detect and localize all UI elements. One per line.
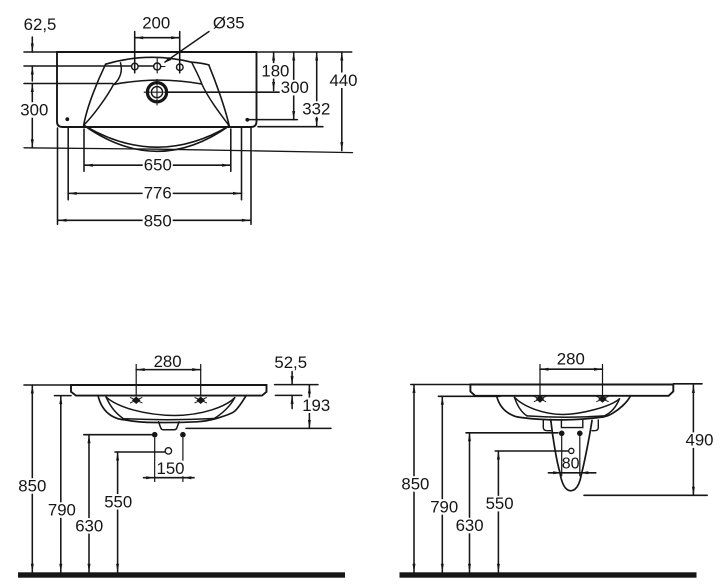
basin front lip outer arc (plan) bbox=[84, 125, 230, 151]
leader drain pipe (front view) bbox=[115, 451, 165, 453]
faucet symbol left (front view) bbox=[133, 397, 140, 403]
bowl outer contour (front view) bbox=[98, 396, 246, 423]
extension line 650 right (plan bottom) bbox=[230, 129, 232, 171]
bowl left wing line (front view) bbox=[106, 397, 123, 419]
extension slab top right (side view) bbox=[673, 383, 702, 385]
extension line top edge right (plan) bbox=[258, 51, 352, 53]
basin right inner wall (plan) bbox=[202, 84, 229, 126]
fixing dot left (front view) bbox=[152, 432, 158, 438]
dimension 850 (front view) bbox=[31, 385, 33, 572]
svg-text:62,5: 62,5 bbox=[24, 15, 57, 34]
fixing dot left (side view) bbox=[559, 431, 565, 437]
dimension 200 (plan top) bbox=[134, 32, 136, 73]
bowl interior bottom line (front view) bbox=[124, 419, 215, 420]
dimension 300 (plan left) bbox=[31, 84, 33, 148]
dimension 193 (front view) bbox=[308, 385, 310, 428]
svg-text:776: 776 bbox=[144, 184, 172, 203]
basin inner back arc (plan) bbox=[114, 80, 202, 84]
bowl outer contour (side view) bbox=[497, 396, 631, 420]
semi-pedestal outline (side view) bbox=[551, 420, 592, 491]
extension line top edge left (plan) bbox=[24, 51, 57, 53]
dimension 440 (plan right) bbox=[341, 52, 343, 151]
svg-text:490: 490 bbox=[686, 431, 714, 450]
svg-text:332: 332 bbox=[302, 100, 330, 119]
pedestal right tab (side view) bbox=[592, 420, 598, 431]
countertop slab (front view) bbox=[71, 385, 267, 396]
extension slab top left (front view) bbox=[24, 384, 71, 386]
drain hole (plan) bbox=[147, 83, 166, 102]
svg-text:440: 440 bbox=[330, 71, 358, 90]
fixing dot right (side view) bbox=[577, 431, 583, 437]
extension line counter bottom right (plan) bbox=[258, 126, 323, 128]
bowl interior arc (front view) bbox=[106, 397, 235, 415]
svg-text:630: 630 bbox=[75, 516, 103, 535]
leader drain pipe (side view) bbox=[495, 450, 568, 452]
drain pipe circle (side view) bbox=[569, 448, 574, 453]
drain boss (side view) bbox=[561, 419, 582, 427]
extension bowl bottom right (front view) bbox=[186, 427, 331, 429]
svg-text:80: 80 bbox=[562, 455, 580, 472]
basin front lip inner arc (plan) bbox=[84, 125, 230, 147]
extension line faucet axis left (plan) bbox=[24, 65, 132, 67]
svg-text:790: 790 bbox=[430, 498, 458, 517]
fixing dot leader (plan right) bbox=[249, 119, 297, 121]
basin right inner wall upper (plan) bbox=[192, 63, 202, 84]
drain pipe circle (front view) bbox=[165, 448, 171, 454]
dimension 280 (front view) bbox=[135, 365, 137, 397]
svg-text:630: 630 bbox=[456, 516, 484, 535]
dimension 180 (plan right) bbox=[273, 52, 275, 91]
extension line faucet axis mid segment (plan) bbox=[138, 65, 154, 67]
dimension 490 (side view) bbox=[692, 385, 694, 496]
svg-text:850: 850 bbox=[401, 475, 429, 494]
bowl interior arc (side view) bbox=[515, 397, 620, 414]
basin back outer arc (plan) bbox=[106, 57, 192, 64]
bowl right wing line (front view) bbox=[214, 398, 235, 419]
svg-text:850: 850 bbox=[18, 477, 46, 496]
extension slab top right (front view) bbox=[275, 384, 318, 386]
faucet hole middle (plan) bbox=[154, 63, 161, 70]
svg-text:280: 280 bbox=[557, 349, 585, 368]
extension line 776 right (plan bottom) bbox=[241, 128, 243, 200]
svg-text:193: 193 bbox=[302, 396, 330, 415]
svg-text:300: 300 bbox=[20, 101, 48, 120]
faucet symbol right (side view) bbox=[599, 396, 606, 402]
faucet symbol left (side view) bbox=[536, 396, 543, 402]
dimension 550 (front view) bbox=[117, 452, 119, 572]
basin right outer wall (plan) bbox=[209, 65, 229, 126]
countertop outline (plan view) bbox=[57, 52, 257, 127]
dimension 650 (plan bottom) bbox=[84, 164, 230, 166]
countertop slab (side view) bbox=[470, 385, 673, 396]
drain center leader (plan right) bbox=[166, 91, 280, 93]
extension slab bottom right (front view) bbox=[275, 394, 301, 396]
floor line (side view) bbox=[400, 572, 697, 577]
basin left outer wall (plan) bbox=[84, 64, 106, 125]
dimension 280 (side view) bbox=[539, 365, 541, 397]
svg-text:280: 280 bbox=[154, 352, 182, 371]
extension slab bottom left (front view) bbox=[55, 395, 72, 397]
faucet hole right (plan) bbox=[177, 64, 184, 71]
extension line 776 left (plan bottom) bbox=[67, 128, 69, 200]
leader fixing dots (front view) bbox=[84, 434, 152, 436]
dimension 300 (plan right) bbox=[293, 52, 295, 120]
extension line 850 left (plan bottom) bbox=[57, 128, 59, 224]
extension slab top left (side view) bbox=[411, 384, 471, 386]
svg-text:790: 790 bbox=[48, 501, 76, 520]
dimension 630 (front view) bbox=[88, 435, 90, 573]
faucet hole left (plan) bbox=[132, 63, 139, 70]
dimension 62,5 (plan left) bbox=[31, 37, 33, 52]
fixing dot right (front view) bbox=[180, 432, 186, 438]
floor line (front view) bbox=[18, 572, 345, 577]
svg-text:650: 650 bbox=[144, 156, 172, 175]
extension line 850 right (plan bottom) bbox=[250, 128, 252, 225]
basin left inner wall (plan) bbox=[84, 85, 114, 126]
basin back right corner segment (plan) bbox=[192, 62, 209, 65]
svg-text:200: 200 bbox=[142, 13, 170, 32]
extension line inner basin left (plan) bbox=[24, 83, 113, 85]
dimension 850 (side view) bbox=[413, 385, 415, 573]
fixing hole dot right (plan) bbox=[245, 118, 249, 122]
dimension 550 (side view) bbox=[497, 451, 499, 572]
svg-text:550: 550 bbox=[104, 492, 132, 511]
svg-text:52,5: 52,5 bbox=[274, 353, 307, 372]
svg-text:Ø35: Ø35 bbox=[213, 13, 245, 32]
pedestal left tab (side view) bbox=[543, 420, 550, 431]
extension line front lip bottom (plan) bbox=[24, 148, 353, 153]
bowl right wing line (side view) bbox=[604, 399, 619, 416]
fixing hole dot left (plan) bbox=[65, 117, 69, 121]
dimension 332 (plan right) bbox=[316, 52, 318, 127]
svg-text:550: 550 bbox=[486, 494, 514, 513]
leader fixing dots (side view) bbox=[466, 432, 558, 434]
extension line 650 left (plan bottom) bbox=[83, 129, 85, 171]
bowl left wing line (side view) bbox=[515, 397, 528, 416]
svg-text:850: 850 bbox=[144, 211, 172, 230]
basin left inner wall upper (plan) bbox=[114, 63, 121, 85]
extension slab bottom left (side view) bbox=[438, 395, 500, 397]
dimension 790 (front view) bbox=[60, 396, 62, 573]
dimension 150 (front view) bbox=[154, 438, 156, 482]
dimension 850 (plan bottom) bbox=[58, 219, 250, 221]
leader Ø35 (plan top) bbox=[165, 32, 209, 63]
dimension 52,5 (front view) bbox=[291, 372, 293, 385]
faucet symbol right (front view) bbox=[197, 397, 204, 403]
dimension 776 (plan bottom) bbox=[68, 192, 241, 194]
dimension 790 (side view) bbox=[441, 396, 443, 572]
dimension 630 (side view) bbox=[469, 433, 471, 572]
drain boss (front view) bbox=[159, 422, 180, 430]
extension pedestal bottom (side view) bbox=[584, 494, 707, 496]
bowl interior bottom line (side view) bbox=[527, 416, 604, 417]
svg-text:300: 300 bbox=[281, 78, 309, 97]
dimension 80 (side view) bbox=[561, 437, 563, 476]
svg-text:150: 150 bbox=[157, 459, 185, 478]
